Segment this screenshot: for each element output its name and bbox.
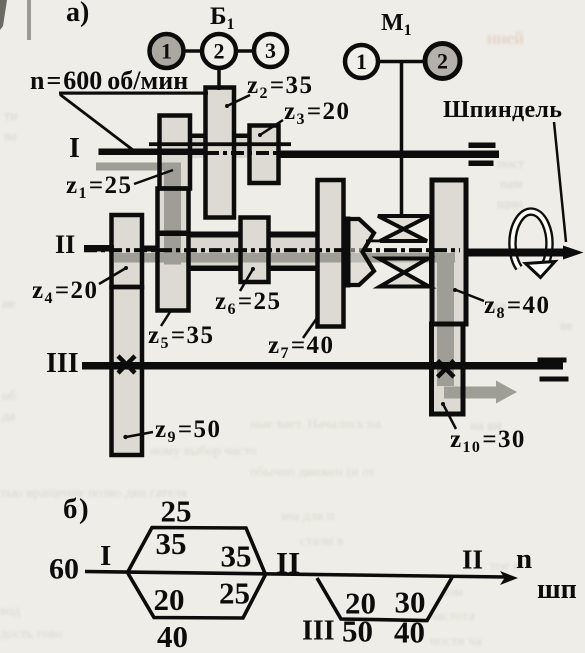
callout line from spindle label (554, 122, 566, 242)
svg-text:нней: нней (487, 28, 524, 48)
power flow gray band on shaft I (96, 163, 175, 171)
svg-text:50: 50 (342, 614, 373, 649)
trapezoid speed net II-III-II (317, 578, 452, 621)
clutch M1 selector circles (377, 60, 427, 64)
svg-text:z6=25: z6=25 (215, 288, 281, 318)
svg-text:I: I (69, 133, 80, 164)
spindle shaft line (464, 249, 565, 257)
svg-text:z7=40: z7=40 (268, 332, 334, 362)
gear z7 fill (318, 180, 344, 327)
selector rod from M1 to clutch (400, 62, 404, 217)
svg-text:n: n (516, 543, 532, 575)
svg-text:Шпиндель: Шпиндель (443, 97, 562, 123)
gear z8 border (432, 180, 466, 324)
svg-text:дость гово: дость гово (0, 627, 63, 642)
svg-text:III: III (302, 616, 335, 647)
clutch M1 right edge (429, 215, 435, 288)
svg-text:II: II (462, 545, 483, 575)
svg-text:ности ча: ности ча (430, 634, 482, 649)
spindle rotation symbol (512, 212, 555, 278)
B1 circle 3 (254, 34, 287, 67)
gear z7 border (318, 180, 344, 327)
gear z5 fill (158, 189, 189, 311)
svg-text:шп: шп (537, 574, 577, 605)
gear z5 border (158, 189, 189, 311)
svg-text:частота: частота (430, 609, 476, 624)
shaft III line (82, 362, 563, 370)
svg-text:стали в: стали в (300, 534, 344, 549)
fixed joint cross on z9 (118, 356, 135, 373)
svg-text:тью вращение позво дви гат: тью вращение позво дви гателя (0, 486, 188, 501)
gear z3 fill (250, 126, 279, 184)
svg-text:3: 3 (265, 38, 276, 63)
callout line to shaft I (60, 95, 133, 151)
gear z3 border (250, 126, 279, 184)
svg-text:б): б) (63, 493, 90, 525)
fixed joint cross on z10 (438, 361, 455, 378)
svg-text:z4=20: z4=20 (32, 277, 98, 307)
power flow output arrow (444, 381, 517, 404)
gear z6 fill (241, 218, 269, 283)
shaft I right bearing (469, 143, 496, 149)
sleeve rect between z2 z3 (233, 135, 251, 158)
power flow column through z8 z10 (437, 253, 454, 386)
svg-text:z5=35: z5=35 (148, 322, 214, 352)
svg-text:z9=50: z9=50 (155, 416, 221, 446)
svg-text:z2=35: z2=35 (247, 72, 313, 102)
svg-text:35: 35 (221, 539, 252, 574)
sleeve bar top edge (188, 232, 345, 238)
gear z2 border (206, 88, 235, 218)
svg-text:обычно движен (и от: обычно движен (и от (250, 465, 375, 480)
svg-text:z1=25: z1=25 (66, 172, 132, 202)
shaft II solid left segment (84, 245, 114, 252)
gear z4 border (112, 215, 143, 287)
hexagon speed net I-II (128, 528, 266, 619)
shaft II solid segment between z4 z5 (142, 246, 159, 252)
svg-text:ва: ва (4, 129, 17, 144)
svg-text:ные вает. Начались на: ные вает. Начались на (250, 417, 382, 432)
selector rod from B1 circle 2 to gear z2 (217, 51, 221, 90)
svg-text:35: 35 (156, 526, 187, 561)
svg-text:а): а) (66, 0, 89, 28)
gear z6 border (241, 218, 269, 283)
main speed line with arrow (85, 572, 506, 578)
shaft II axis dash-dot (84, 248, 460, 252)
svg-text:пост: пост (497, 157, 524, 172)
svg-text:25: 25 (161, 494, 192, 529)
svg-text:40: 40 (394, 615, 425, 650)
shaft I axis dash-dot (206, 151, 280, 155)
svg-text:об: об (2, 389, 16, 404)
B1 circle 2 (202, 34, 236, 68)
spindle arrow head (563, 246, 584, 260)
svg-text:40: 40 (157, 619, 188, 653)
shaft II sleeve bar fill (188, 236, 345, 266)
svg-text:зна для п: зна для п (280, 509, 335, 524)
svg-text:щин: щин (497, 197, 523, 212)
svg-text:25: 25 (219, 576, 250, 611)
power flow band on shaft II (114, 253, 455, 263)
svg-text:нам: нам (500, 177, 523, 192)
gear z9 fill (112, 287, 143, 455)
M1 circle 1 (345, 45, 378, 78)
power flow column through z1 z5 (164, 163, 181, 265)
svg-text:z10=30: z10=30 (450, 426, 526, 456)
svg-text:не: не (2, 297, 16, 312)
svg-text:60: 60 (49, 553, 79, 586)
svg-text:вод: вод (0, 604, 20, 619)
M1 circle 2 (425, 44, 460, 79)
shaft I solid right segment (278, 151, 499, 159)
gear z9 border (112, 287, 143, 455)
gear z10 fill (432, 324, 464, 414)
svg-text:да: да (2, 409, 16, 424)
gear z1 fill (160, 116, 191, 189)
block B1 selector circles (166, 49, 271, 53)
shaft I solid left segment (99, 149, 207, 156)
clutch joint line (366, 240, 382, 243)
shaft III right bearing (538, 358, 567, 363)
z5 column internal divider (158, 231, 189, 237)
gear z4 fill (112, 215, 143, 287)
gear z10 border (432, 324, 464, 414)
scan mark top left (27, 0, 31, 40)
sleeve rect between z1 z2 (190, 135, 207, 158)
svg-text:2: 2 (214, 39, 225, 64)
svg-text:I: I (100, 540, 111, 572)
gear z8 fill (432, 180, 466, 324)
gear z2 fill (206, 88, 235, 218)
svg-text:1: 1 (356, 49, 367, 74)
svg-text:III: III (46, 348, 79, 379)
svg-text:2: 2 (437, 49, 448, 74)
B1 circle 1 (150, 34, 184, 68)
clutch M1 right half bottom jaw (379, 259, 429, 287)
svg-text:z8=40: z8=40 (484, 292, 550, 322)
svg-text:n=600об/мин: n=600об/мин (30, 66, 188, 95)
svg-text:ве: ве (560, 319, 573, 334)
svg-text:II: II (55, 230, 75, 259)
gear z1 border (160, 116, 191, 189)
clutch M1 right half top jaw (378, 216, 429, 241)
svg-text:20: 20 (154, 582, 185, 617)
svg-text:1: 1 (161, 39, 172, 64)
svg-text:II: II (276, 545, 300, 580)
sleeve bar bottom edge (188, 266, 345, 272)
shaft I spline line (149, 142, 291, 146)
svg-text:z3=20: z3=20 (284, 98, 350, 128)
svg-text:ти: ти (4, 109, 18, 124)
clutch M1 left half (345, 219, 375, 285)
svg-text:ному выбор часто: ному выбор часто (150, 444, 257, 459)
